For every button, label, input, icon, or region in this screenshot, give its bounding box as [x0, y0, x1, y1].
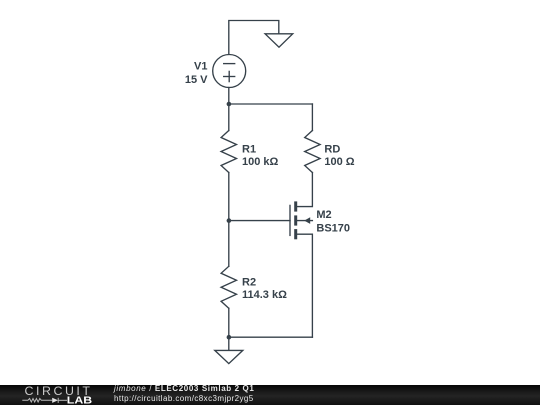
resistor R2 (114.3 k) — [221, 266, 236, 308]
transistor M2 gate line — [289, 205, 291, 235]
wire node A down to R1 — [228, 104, 230, 131]
svg-text:15 V: 15 V — [185, 74, 208, 86]
svg-text:M2: M2 — [316, 209, 331, 221]
wire from V1 plus terminal up and over to ground — [229, 21, 279, 55]
svg-text:R1: R1 — [242, 143, 256, 155]
wire R1 bottom to gate node B — [228, 173, 230, 221]
node A junction dot — [227, 102, 232, 107]
wire node C down to ground — [228, 337, 230, 350]
svg-text:V1: V1 — [194, 60, 207, 72]
wire gate node B to M2 gate — [229, 220, 290, 222]
wire M2 body to source corner — [297, 220, 312, 222]
CircuitLab logo — [0, 385, 130, 405]
svg-text:BS170: BS170 — [316, 222, 350, 234]
voltage source V1 (15 V) — [213, 55, 246, 88]
ground GND2 (bottom) — [215, 350, 243, 363]
svg-text:RD: RD — [324, 143, 340, 155]
svg-text:LAB: LAB — [67, 396, 92, 405]
wire R2 bottom to node C — [228, 308, 230, 337]
svg-text:114.3 kΩ: 114.3 kΩ — [242, 289, 287, 301]
ground GND1 (top) — [265, 34, 293, 47]
transistor M2 channel bars (drain, body, source contacts) — [294, 201, 297, 239]
resistor R1 (100 k) — [221, 131, 236, 173]
transistor M2 body arrow head — [304, 217, 310, 224]
node C junction dot (bottom node) — [227, 335, 232, 340]
svg-text:100 Ω: 100 Ω — [324, 156, 354, 168]
wire M2 source down to bottom node C — [297, 234, 312, 337]
svg-text:100 kΩ: 100 kΩ — [242, 156, 279, 168]
wire node A down to RD — [311, 104, 313, 131]
wire node A horizontal to RD branch — [229, 103, 313, 105]
wire node C horizontal to source branch — [229, 336, 313, 338]
node B junction dot (gate node) — [227, 218, 232, 223]
wire RD bottom to M2 drain — [297, 173, 312, 207]
svg-text:R2: R2 — [242, 276, 256, 288]
resistor RD (100) — [305, 131, 320, 173]
wire gate node B down to R2 — [228, 221, 230, 267]
wire V1 minus terminal to node A — [228, 88, 230, 105]
